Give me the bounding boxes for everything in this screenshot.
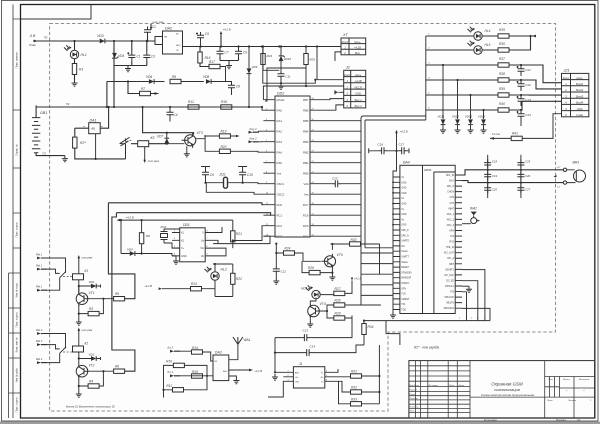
capacitor C9: [235, 48, 242, 57]
svg-text:R2* - ток заряда: R2* - ток заряда: [414, 346, 439, 350]
input row R38: [498, 78, 509, 82]
wire DD1 right row2: [213, 240, 226, 256]
svg-text:MIC_IN: MIC_IN: [446, 175, 454, 177]
svg-text:ВЫХ: ВЫХ: [176, 45, 181, 47]
svg-text:ZQ1: ZQ1: [160, 225, 167, 229]
svg-text:RA1: RA1: [277, 119, 283, 123]
svg-text:R15: R15: [192, 370, 198, 374]
capacitor C11: [278, 71, 285, 80]
capacitor chain C25 C26 C27: [520, 155, 522, 198]
svg-text:Сомм: Сомм: [576, 113, 583, 117]
svg-text:Т.контр.: Т.контр.: [410, 398, 419, 400]
resistor R20: [219, 149, 230, 153]
svg-text:R35: R35: [499, 28, 505, 32]
svg-text:R31: R31: [351, 370, 357, 374]
wire R23 VD10 bottoms: [263, 69, 279, 71]
svg-text:HANDY: HANDY: [401, 282, 410, 285]
ground DA3: [229, 376, 237, 378]
wires J1 left: [268, 372, 286, 397]
resistor R6: [114, 369, 125, 373]
input row R40: [498, 108, 509, 112]
diode VD8: [206, 79, 211, 84]
input row R39: [498, 93, 509, 97]
ground DD1 pin4: [172, 256, 176, 258]
svg-text:I2C_SD: I2C_SD: [446, 280, 454, 282]
svg-text:R20: R20: [221, 145, 227, 149]
svg-text:R22: R22: [236, 277, 242, 281]
svg-text:DD1: DD1: [183, 223, 190, 227]
svg-text:VD5: VD5: [127, 248, 133, 252]
svg-text:R14: R14: [192, 346, 198, 350]
svg-text:Н.контр.: Н.контр.: [410, 407, 420, 409]
svg-text:IOC_A: IOC_A: [447, 257, 454, 260]
svg-text:HL2: HL2: [221, 268, 227, 272]
svg-text:C15: C15: [332, 177, 338, 181]
svg-text:VD10: VD10: [284, 57, 292, 61]
svg-text:TDI: TDI: [401, 304, 405, 306]
capacitor C5 polarized: [197, 32, 204, 41]
ground C11: [278, 83, 284, 89]
svg-text:Пров.: Пров.: [410, 394, 416, 396]
capacitor C22: [518, 81, 525, 90]
svg-text:STANDBY: STANDBY: [401, 271, 412, 274]
svg-text:RC7: RC7: [303, 203, 309, 207]
svg-text:MELTN: MELTN: [446, 303, 454, 305]
wires J2 XT left: [306, 47, 344, 93]
node at 114: [113, 40, 115, 42]
svg-text:+4,2 В: +4,2 В: [354, 278, 362, 281]
svg-text:R7: R7: [141, 87, 145, 91]
svg-text:Конт: Конт: [344, 73, 351, 77]
svg-text:RB3: RB3: [303, 140, 309, 144]
svg-text:RA0: RA0: [277, 108, 283, 112]
wire cap ground bus: [115, 65, 147, 67]
svg-text:П2: П2: [66, 102, 70, 106]
svg-text:GND: GND: [401, 214, 406, 216]
wires DA4 right lower to bottom bus: [462, 270, 490, 321]
svg-text:12 пин: 12 пин: [492, 132, 500, 136]
svg-text:VT5: VT5: [337, 253, 343, 257]
svg-text:R11: R11: [166, 384, 172, 388]
svg-text:Пзар: Пзар: [29, 43, 36, 47]
svg-text:Вход2: Вход2: [576, 88, 584, 92]
microphone BM1 contacts: [563, 168, 566, 171]
svg-text:C2: C2: [152, 25, 156, 29]
svg-text:Взам. инв.№: Взам. инв.№: [16, 337, 19, 352]
resistor R7: [140, 91, 151, 95]
svg-text:Листов: Листов: [567, 400, 577, 402]
svg-text:R41: R41: [512, 132, 518, 136]
svg-text:J1: J1: [299, 362, 303, 366]
spine branches to DA4: [361, 253, 393, 295]
svg-text:Инв.№ подл.: Инв.№ подл.: [16, 282, 19, 297]
svg-text:GND: GND: [401, 188, 406, 190]
svg-text:ADC_1: ADC_1: [447, 213, 455, 216]
svg-text:C10: C10: [247, 173, 253, 177]
resistor R8: [139, 233, 143, 244]
svg-text:R34: R34: [368, 325, 374, 329]
svg-text:R23: R23: [267, 54, 273, 58]
svg-text:R33: R33: [351, 397, 357, 401]
resistor R41: [511, 136, 522, 140]
svg-text:Кнопка S1 Выключение сигнализа: Кнопка S1 Выключение сигнализации S2: [66, 405, 115, 409]
svg-text:Конт: Конт: [342, 40, 349, 44]
svg-text:UARTT: UARTT: [401, 256, 409, 259]
wire row81 left: [107, 81, 165, 83]
relay K1 contacts: [41, 258, 66, 290]
label pit rezh K3: [144, 147, 146, 162]
svg-text:Вых 2: Вых 2: [355, 104, 363, 108]
svg-text:R3: R3: [89, 307, 93, 311]
svg-text:RA2: RA2: [277, 129, 283, 133]
svg-text:I2C_SCK: I2C_SCK: [444, 275, 454, 277]
svg-text:ВЫХ: ВЫХ: [223, 371, 228, 373]
svg-text:Key 2: Key 2: [250, 136, 258, 140]
wires DD2 left connections: [262, 107, 263, 110]
svg-text:HL3: HL3: [301, 287, 307, 291]
wire spine right bundle: [317, 121, 361, 237]
svg-text:WA1: WA1: [244, 338, 251, 342]
svg-text:CH2: CH2: [449, 197, 454, 199]
capacitor C4: [167, 109, 174, 118]
ground under R1: [72, 80, 78, 86]
svg-text:RB5: RB5: [303, 119, 309, 123]
svg-text:–: –: [565, 388, 568, 392]
capacitor C7: [217, 48, 224, 57]
svg-text:C8: C8: [236, 85, 240, 89]
svg-text:C17: C17: [399, 143, 405, 147]
resistor R33: [351, 402, 362, 406]
svg-text:OSC2: OSC2: [277, 192, 285, 196]
svg-text:C24: C24: [525, 113, 531, 117]
transistor VT4: [308, 305, 320, 317]
left margin column strips: [9, 5, 14, 419]
diode VD9: [247, 68, 252, 73]
svg-text:C1: C1: [137, 55, 141, 59]
svg-text:C11: C11: [285, 75, 291, 79]
resistor R4: [88, 384, 99, 388]
capacitor C15: [332, 180, 341, 187]
J1 pin stubs: [286, 372, 332, 381]
capacitor C1: [128, 52, 135, 61]
resistor R18: [221, 105, 232, 109]
svg-text:SMRST: SMRST: [401, 299, 410, 301]
svg-text:R18: R18: [221, 100, 227, 104]
resistor R28: [334, 303, 345, 307]
svg-text:Масса: Масса: [563, 379, 570, 381]
ground battery minus: [62, 156, 68, 162]
svg-text:RB0: RB0: [303, 171, 309, 175]
capacitor C21: [518, 66, 525, 75]
svg-text:+4,2 В: +4,2 В: [400, 130, 408, 134]
vertical from VD3 node to lower rail: [106, 82, 108, 108]
resistor R26: [309, 270, 320, 274]
svg-text:VD8: VD8: [203, 75, 209, 79]
svg-text:TCK: TCK: [401, 294, 406, 296]
wire DD1 V+ top: [213, 227, 222, 233]
svg-text:GND: GND: [355, 92, 361, 96]
wires VT3 to R19 R20: [196, 136, 219, 151]
resistor R27: [334, 291, 345, 295]
svg-text:VD14: VD14: [478, 115, 485, 119]
svg-text:HL4: HL4: [485, 29, 491, 33]
svg-text:Конт: Конт: [563, 76, 570, 80]
svg-text:Кл 2: Кл 2: [168, 346, 174, 350]
svg-text:R26: R26: [308, 266, 314, 270]
wire main rail y107: [36, 106, 262, 108]
svg-text:XT: XT: [342, 33, 349, 37]
svg-text:C5: C5: [205, 32, 209, 36]
svg-text:RA4: RA4: [277, 150, 283, 154]
svg-text:Rel 2: Rel 2: [36, 339, 43, 343]
audio wires to BM1: [462, 170, 563, 183]
svg-text:ZQ1: ZQ1: [219, 173, 226, 177]
svg-text:R40: R40: [499, 102, 505, 106]
svg-text:R27: R27: [335, 287, 341, 291]
svg-text:пит реж: пит реж: [153, 20, 165, 24]
IC DD2 microcontroller: [275, 96, 310, 237]
svg-text:RX2: RX2: [450, 242, 455, 244]
resistor R29: [334, 316, 345, 320]
svg-text:VD7: VD7: [157, 135, 163, 139]
svg-text:SPK_P: SPK_P: [401, 230, 409, 232]
svg-text:VD3: VD3: [97, 34, 104, 38]
svg-text:R10: R10: [166, 360, 172, 364]
capacitor C17: [398, 147, 407, 154]
wire VD4 branch down: [113, 41, 115, 107]
svg-text:П1: П1: [43, 151, 47, 155]
svg-text:GB1: GB1: [40, 111, 47, 115]
svg-text:MCLR: MCLR: [277, 98, 285, 102]
IC DA4 GSM module: [400, 165, 455, 313]
resistor R31: [351, 374, 362, 378]
svg-text:№ докум.: № докум.: [429, 384, 439, 387]
svg-text:Изм Лист: Изм Лист: [410, 385, 420, 387]
svg-text:RA3: RA3: [277, 140, 283, 144]
svg-text:R30: R30: [351, 238, 357, 242]
svg-text:Цепь: Цепь: [355, 73, 362, 77]
svg-text:Подп.: Подп.: [449, 384, 455, 387]
svg-text:+4,2 В: +4,2 В: [126, 215, 134, 219]
capacitor C10: [239, 169, 246, 178]
wire DD1 right to R21: [232, 239, 234, 241]
wire collector rail VT3: [143, 107, 194, 135]
ground C7 C9: [226, 63, 232, 69]
svg-text:USART1: USART1: [445, 268, 455, 271]
svg-text:R17: R17: [209, 60, 215, 64]
svg-text:Rel 2: Rel 2: [36, 357, 43, 361]
resistor R5: [114, 297, 125, 301]
svg-text:Вход1: Вход1: [576, 82, 584, 86]
svg-text:К1: К1: [85, 269, 89, 273]
DD1 pin stubs: [172, 233, 213, 256]
resistor R9: [170, 79, 181, 83]
svg-text:VT2: VT2: [89, 364, 95, 368]
DA4 left pin stubs: [393, 177, 400, 310]
svg-text:VD12: VD12: [452, 115, 459, 119]
wire C7 C9 gnd: [220, 61, 239, 63]
wire DA2 in/out: [148, 41, 263, 47]
svg-text:П3: П3: [44, 36, 48, 40]
DA4 left ground bus: [392, 177, 394, 312]
svg-text:SG: SG: [200, 247, 204, 250]
LED section bus vertical: [425, 36, 427, 120]
svg-text:WA2: WA2: [470, 207, 477, 211]
svg-text:C12: C12: [281, 270, 287, 274]
terminal J2 GND: [335, 91, 339, 94]
svg-text:Vss: Vss: [304, 192, 309, 196]
capacitor C16: [378, 147, 387, 154]
resistor R19: [219, 134, 230, 138]
svg-text:RC2: RC2: [277, 224, 283, 228]
diode VD7: [164, 138, 169, 143]
wire +4.2 rail right: [262, 46, 341, 48]
svg-text:C16: C16: [378, 143, 384, 147]
svg-text:RB2: RB2: [303, 150, 309, 154]
diode VD1: [91, 284, 96, 289]
svg-text:R36: R36: [499, 42, 505, 46]
resistor R21: [231, 231, 235, 242]
svg-text:GND: GND: [577, 107, 583, 111]
resistor R32: [351, 390, 362, 394]
LED HL3: [312, 290, 320, 298]
svg-text:Дата: Дата: [458, 385, 466, 387]
resistor R30: [350, 242, 361, 246]
svg-text:R39: R39: [499, 87, 505, 91]
wire HL1-R1-gnd: [74, 59, 76, 80]
relay K1 coil: [73, 274, 84, 280]
svg-text:TPE_IN: TPE_IN: [446, 247, 454, 249]
svg-text:пит реж: пит реж: [82, 257, 93, 260]
svg-text:C20: C20: [492, 188, 498, 192]
svg-text:Справ. №: Справ. №: [16, 144, 19, 156]
svg-text:DA4: DA4: [403, 161, 410, 165]
svg-text:CHGN: CHGN: [447, 192, 454, 194]
ground caps: [125, 66, 131, 72]
svg-text:VD2: VD2: [89, 353, 95, 357]
diode VD2: [91, 356, 96, 361]
svg-text:-5 В: -5 В: [29, 34, 36, 38]
svg-text:C19: C19: [492, 174, 498, 178]
svg-text:R12: R12: [188, 100, 194, 104]
svg-text:К2: К2: [85, 342, 89, 346]
svg-text:Кл 1: Кл 1: [168, 370, 174, 374]
crystal ZQ1: [224, 177, 228, 188]
svg-text:1: 1: [489, 318, 490, 320]
resistor R10: [173, 363, 184, 367]
wire C13 C14 common left: [274, 338, 276, 373]
svg-text:SPKLICK: SPKLICK: [444, 297, 454, 299]
LED HL5: [474, 46, 482, 54]
capacitor C3: [143, 52, 150, 61]
svg-text:К3: К3: [151, 136, 155, 140]
svg-text:Вход3: Вход3: [576, 94, 584, 98]
diode VD3: [100, 39, 105, 44]
svg-text:Vdd: Vdd: [304, 182, 309, 186]
switch S to K3: [121, 141, 129, 159]
svg-text:Rel 1: Rel 1: [36, 263, 43, 267]
svg-text:C7: C7: [224, 51, 228, 55]
svg-text:Подп. и дата: Подп. и дата: [16, 312, 19, 327]
svg-text:CHG: CHG: [449, 181, 454, 183]
svg-text:RA5: RA5: [277, 161, 283, 165]
svg-text:HL1: HL1: [81, 53, 87, 57]
dashed module boundary: [50, 24, 556, 412]
resistor R2*: [73, 137, 77, 148]
ground VT2: [78, 386, 80, 391]
LED HL4: [474, 32, 482, 40]
capacitor C14: [303, 349, 312, 356]
zener VD10: [279, 56, 284, 61]
svg-text:VT1: VT1: [89, 291, 95, 295]
svg-text:R21: R21: [236, 232, 242, 236]
svg-text:C3: C3: [151, 55, 155, 59]
resistor R17: [209, 64, 220, 68]
svg-text:HL5: HL5: [485, 43, 491, 47]
svg-text:R6: R6: [115, 365, 119, 369]
resistor R3: [88, 311, 99, 315]
svg-text:RC5: RC5: [303, 224, 309, 228]
diode VD5: [130, 251, 135, 256]
svg-text:ANT: ANT: [295, 371, 300, 374]
svg-text:DD2: DD2: [277, 92, 284, 96]
svg-text:R38: R38: [499, 72, 505, 76]
svg-text:Лист: Лист: [546, 400, 553, 402]
svg-text:+4,2 В: +4,2 В: [223, 28, 231, 32]
svg-text:R13: R13: [191, 282, 197, 286]
svg-text:DA2: DA2: [165, 27, 172, 31]
svg-text:RB6: RB6: [303, 108, 309, 112]
svg-text:MIC_P: MIC_P: [447, 186, 454, 188]
svg-text:RC6: RC6: [303, 213, 309, 217]
input row R37: [498, 63, 509, 67]
svg-text:ADC_3: ADC_3: [447, 224, 455, 227]
svg-text:Утв.: Утв.: [410, 411, 415, 413]
LED HL1: [70, 50, 78, 58]
svg-text:1: 1: [477, 318, 478, 320]
svg-text:R19: R19: [221, 130, 227, 134]
svg-text:1: 1: [466, 318, 467, 320]
svg-text:VD1: VD1: [89, 280, 95, 284]
svg-text:C18: C18: [492, 160, 498, 164]
svg-text:C4: C4: [174, 113, 178, 117]
svg-text:Status: Status: [401, 261, 408, 264]
svg-text:C9: C9: [243, 51, 247, 55]
svg-text:VD4: VD4: [118, 54, 124, 58]
svg-text:R25: R25: [310, 58, 316, 62]
svg-text:MCLR: MCLR: [355, 85, 362, 89]
wires VT5: [331, 244, 333, 274]
svg-text:SPKDATA: SPKDATA: [444, 307, 455, 310]
svg-text:1: 1: [459, 318, 460, 320]
svg-text:Vss: Vss: [277, 171, 282, 175]
svg-text:Подп. и дата: Подп. и дата: [16, 397, 19, 412]
svg-text:RC4: RC4: [303, 234, 309, 238]
diode VD6: [149, 79, 154, 84]
wire R25 to MCLR J2: [263, 65, 306, 100]
svg-text:+4,2 В: +4,2 В: [144, 284, 152, 288]
svg-text:пит реж: пит реж: [82, 329, 93, 332]
svg-text:+4,2 В: +4,2 В: [255, 369, 263, 373]
svg-text:C14: C14: [310, 345, 316, 349]
svg-text:J2: J2: [345, 65, 351, 69]
svg-text:1: 1: [484, 318, 485, 320]
svg-text:VD9: VD9: [252, 65, 258, 69]
wire right vertical to J1 nets: [378, 345, 380, 404]
svg-text:R24: R24: [285, 247, 291, 251]
svg-text:VBAT: VBAT: [448, 207, 454, 210]
svg-text:GND: GND: [401, 182, 406, 184]
